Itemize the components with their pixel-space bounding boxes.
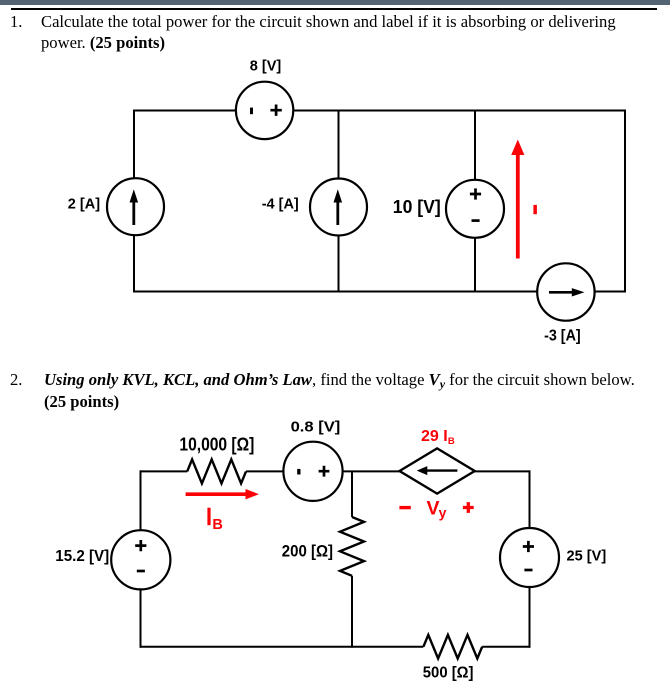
wire left lower [133,235,135,292]
current source -3A [537,263,594,320]
dependent source diamond 29IB [400,448,475,493]
svg-text:2 [A]: 2 [A] [68,196,100,212]
wire right down to 25V [529,470,531,528]
wire bottom-left [133,291,537,293]
current source -4A [310,179,367,236]
label IB (red) [207,508,222,533]
problem 2 statement [44,369,635,412]
red arrow IB [186,489,259,499]
wire left lower [140,589,142,647]
wire left upper [133,110,135,179]
red current arrow I [511,140,524,259]
voltage source 8V [236,82,293,139]
svg-text:200 [Ω]: 200 [Ω] [282,542,333,560]
wire bottom-left [140,646,424,648]
svg-text:8 [V]: 8 [V] [250,59,282,75]
wire 200 ohm to bottom [351,576,353,648]
resistor 10,000 ohm [187,459,246,483]
svg-text:10,000 [Ω]: 10,000 [Ω] [179,433,254,454]
voltage source 0.8V [283,442,342,501]
wire 25V to bottom [529,587,531,648]
svg-text:25 [V]: 25 [V] [567,547,607,564]
header band [0,0,670,5]
voltage source 25V [500,528,559,587]
svg-text:-3 [A]: -3 [A] [544,328,581,345]
svg-text:0.8 [V]: 0.8 [V] [291,418,341,435]
svg-text:-4 [A]: -4 [A] [262,196,299,212]
wire diamond to right corner [475,470,531,472]
resistor 500 ohm [423,635,482,659]
label I (red) [533,205,537,214]
wire right [624,110,626,293]
svg-text:y: y [439,504,447,520]
svg-text:500 [Ω]: 500 [Ω] [423,665,474,682]
header rule [11,8,657,10]
problem 2 number [10,369,22,391]
label 29 IB (red) [421,428,455,447]
current source 2A [107,178,164,235]
svg-text:B: B [448,436,455,447]
svg-text:15.2 [V]: 15.2 [V] [55,548,109,565]
resistor 200 ohm [340,517,364,576]
wire mid-2 upper [474,111,476,180]
svg-text:10 [V]: 10 [V] [393,196,441,217]
wire bottom-right [595,291,626,293]
wire top-left [133,110,236,112]
problem 1 statement [41,11,616,53]
svg-text:29 I: 29 I [421,428,448,445]
wire mid-2 lower [474,238,476,292]
wire mid-1 lower [338,236,340,292]
wire left upper [140,470,142,530]
problem 1 number [10,11,22,32]
wire top-left [140,470,188,472]
wire mid-1 upper [338,111,340,179]
wire resistor to 0.8V [246,470,283,472]
voltage source 10V [446,180,504,238]
svg-text:B: B [212,517,222,533]
svg-text:V: V [427,498,440,520]
label - Vy + (red) [399,498,473,521]
wire top-right [293,110,626,112]
wire 0.8V to diamond with node branch [343,470,401,472]
wire bottom-right [482,646,530,648]
voltage source 15.2V [111,530,170,589]
wire node down to 200 ohm [351,471,353,517]
